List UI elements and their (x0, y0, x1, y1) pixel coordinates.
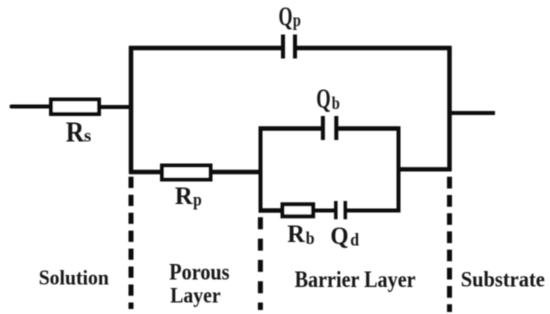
svg-text:Solution: Solution (39, 266, 109, 290)
wire: inner box to right bus (399, 167, 452, 171)
svg-text:Layer: Layer (170, 282, 220, 307)
svg-text:Q: Q (330, 223, 348, 250)
wire: Rs to left node (99, 105, 133, 109)
wire: left bus (129, 46, 134, 174)
capacitor Qb (323, 116, 336, 140)
wire: inner left bus (259, 127, 263, 213)
capacitor Qp (283, 35, 295, 59)
wire: bottom branch left (129, 170, 162, 174)
wire: Rp to inner box (211, 170, 263, 174)
boundary: solution / porous layer (129, 177, 134, 309)
label Qb (316, 84, 340, 114)
svg-text:R: R (175, 183, 194, 210)
svg-text:Q: Q (316, 84, 330, 114)
svg-text:b: b (306, 228, 315, 248)
label Rs (66, 117, 92, 148)
svg-text:p: p (193, 190, 202, 210)
svg-text:R: R (287, 221, 306, 248)
svg-text:Barrier Layer: Barrier Layer (295, 267, 416, 292)
svg-text:p: p (293, 10, 301, 30)
resistor Rb (283, 204, 314, 216)
wire: top branch right (297, 46, 452, 50)
svg-text:Q: Q (279, 2, 293, 31)
svg-text:b: b (332, 93, 340, 113)
wire: inner right bus (397, 127, 401, 213)
label Rb (287, 221, 314, 248)
svg-text:d: d (350, 230, 359, 250)
label Qp (279, 2, 301, 31)
wire: Rb to Qd (313, 209, 335, 213)
wire: top branch left (129, 46, 281, 50)
wire: right bus (447, 46, 452, 171)
resistor Rp (162, 166, 211, 180)
boundary: barrier layer / substrate (447, 177, 452, 312)
label Rp (175, 183, 202, 210)
svg-text:s: s (84, 126, 91, 146)
wire: right output terminal (448, 111, 496, 115)
wire: inner top branch right (338, 126, 401, 130)
wire: inner bottom branch left (259, 208, 285, 212)
wire: inner top branch left (259, 126, 322, 130)
capacitor Qd (336, 201, 346, 219)
wire: left input terminal (12, 105, 50, 109)
wire: Qd to inner right bus (347, 209, 401, 213)
svg-text:Substrate: Substrate (461, 267, 545, 292)
resistor Rs (51, 100, 99, 115)
boundary: porous layer / barrier layer (258, 217, 263, 310)
svg-text:R: R (66, 117, 85, 148)
label Qd (330, 223, 359, 250)
